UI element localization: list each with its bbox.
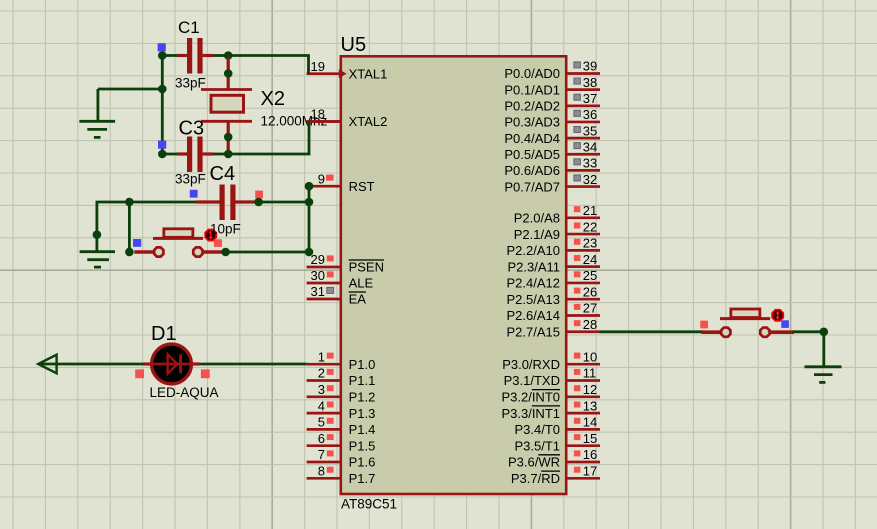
svg-text:P0.2/AD2: P0.2/AD2	[504, 99, 560, 114]
svg-text:10: 10	[583, 349, 597, 364]
wire LED to P1.0	[200, 363, 307, 366]
svg-text:P1.6: P1.6	[349, 455, 376, 470]
node button1 left junction	[125, 248, 134, 257]
svg-text:38: 38	[583, 75, 597, 90]
svg-text:C4: C4	[210, 163, 236, 185]
svg-text:P1.7: P1.7	[349, 471, 376, 486]
svg-text:17: 17	[583, 464, 597, 479]
svg-text:8: 8	[318, 464, 325, 479]
wire left rail	[161, 56, 164, 155]
svg-text:29: 29	[311, 252, 325, 267]
svg-text:3: 3	[318, 382, 325, 397]
svg-text:P1.1: P1.1	[349, 373, 376, 388]
svg-text:26: 26	[583, 284, 597, 299]
pin 18 XTAL2	[307, 120, 340, 123]
transistor Q1 button reset	[134, 250, 153, 254]
node crystal bottom pin dot	[224, 133, 233, 142]
node C4 red marker	[255, 191, 263, 199]
svg-text:21: 21	[583, 203, 597, 218]
svg-text:9: 9	[318, 171, 325, 186]
node button2 red marker	[700, 321, 708, 329]
pin 14 P3.4/T0	[566, 428, 600, 431]
pin 3 P1.2	[307, 395, 340, 398]
node button2 ground junction	[820, 328, 829, 337]
pin 39 P0.0/AD0	[566, 72, 600, 75]
pin 23 P2.2/A10	[566, 249, 600, 252]
svg-text:P0.6/AD6: P0.6/AD6	[504, 163, 560, 178]
pin 36 P0.3/AD3	[566, 121, 600, 124]
svg-text:P0.5/AD5: P0.5/AD5	[504, 147, 560, 162]
svg-text:EA: EA	[349, 292, 367, 307]
node C3 left junction	[158, 150, 167, 159]
svg-text:C3: C3	[179, 118, 205, 140]
capacitor C3	[177, 152, 187, 155]
wire XTAL2 net	[228, 122, 309, 155]
node button1 red marker	[214, 239, 222, 247]
pin 11 P3.1/TXD	[566, 379, 600, 382]
svg-text:U5: U5	[341, 34, 367, 56]
svg-text:LED-AQUA: LED-AQUA	[150, 385, 219, 400]
pin 31 EA	[307, 298, 340, 301]
node D1 right red marker	[201, 369, 210, 378]
node button2 blue marker	[781, 320, 789, 328]
node C1 left junction	[158, 51, 167, 60]
pin 33 P0.6/AD6	[566, 169, 600, 172]
svg-text:7: 7	[318, 447, 325, 462]
wire C3 left	[162, 153, 177, 156]
wire C4 to RST	[254, 201, 309, 204]
svg-text:P2.3/A11: P2.3/A11	[507, 259, 560, 274]
node ground1 junction	[158, 85, 167, 94]
svg-text:PSEN: PSEN	[349, 260, 384, 275]
svg-text:1: 1	[318, 349, 325, 364]
pin 38 P0.1/AD1	[566, 88, 600, 91]
pin 9 RST	[307, 185, 340, 188]
svg-text:AT89C51: AT89C51	[341, 497, 397, 512]
pin 34 P0.5/AD5	[566, 153, 600, 156]
crystal X2	[227, 57, 230, 90]
svg-text:14: 14	[583, 415, 597, 430]
svg-text:33: 33	[583, 156, 597, 171]
ground 2	[80, 250, 115, 253]
pin 21 P2.0/A8	[566, 216, 600, 219]
pin 10 P3.0/RXD	[566, 363, 600, 366]
svg-text:19: 19	[311, 59, 325, 74]
wire button2 to ground	[793, 330, 824, 333]
svg-text:30: 30	[311, 268, 325, 283]
svg-text:31: 31	[311, 284, 325, 299]
svg-text:35: 35	[583, 123, 597, 138]
pin 24 P2.3/A11	[566, 265, 600, 268]
wire C3 right	[214, 153, 229, 156]
pin 8 P1.7	[307, 477, 340, 480]
pin 18 wire overdraw	[307, 120, 340, 123]
pin 27 P2.6/A14	[566, 314, 600, 317]
pin 19 XTAL1	[307, 72, 340, 75]
svg-text:22: 22	[583, 219, 597, 234]
svg-text:37: 37	[583, 91, 597, 106]
node RST junction bottom	[305, 248, 314, 257]
node button1 right junction	[221, 248, 230, 257]
pin 29 PSEN	[307, 266, 340, 269]
svg-text:2: 2	[318, 366, 325, 381]
pin 1 P1.0	[307, 363, 340, 366]
op-amp U1 chip body AT89C51	[341, 56, 566, 494]
svg-text:33pF: 33pF	[175, 172, 206, 187]
pin 12 P3.2/INT0	[566, 395, 600, 398]
wire RST rail	[97, 202, 196, 251]
pin 32 P0.7/AD7	[566, 185, 600, 188]
wire C1 right	[214, 54, 229, 57]
svg-text:34: 34	[583, 139, 597, 154]
wire C1 left	[162, 54, 177, 57]
svg-text:P3.3/INT1: P3.3/INT1	[501, 406, 560, 421]
pin 2 P1.1	[307, 379, 340, 382]
pin 5 P1.4	[307, 428, 340, 431]
svg-text:11: 11	[583, 366, 597, 381]
svg-text:P2.5/A13: P2.5/A13	[507, 292, 561, 307]
svg-text:6: 6	[318, 431, 325, 446]
pin 26 P2.5/A13	[566, 298, 600, 301]
node D1 left red marker	[135, 369, 144, 378]
pin 37 P0.2/AD2	[566, 104, 600, 107]
svg-text:36: 36	[583, 107, 597, 122]
svg-text:P1.4: P1.4	[349, 422, 376, 437]
pin 28 P2.7/A15	[566, 330, 600, 333]
node C3 blue marker	[158, 141, 166, 149]
svg-text:P0.0/AD0: P0.0/AD0	[504, 66, 560, 81]
pin 22 P2.1/A9	[566, 233, 600, 236]
svg-text:P2.2/A10: P2.2/A10	[507, 243, 561, 258]
wire LED left	[38, 363, 143, 366]
ground 1	[79, 120, 115, 123]
pin 17 P3.7/RD	[566, 477, 600, 480]
wire XTAL1 net	[228, 56, 308, 74]
svg-text:P1.2: P1.2	[349, 390, 376, 405]
svg-text:P1.3: P1.3	[349, 406, 376, 421]
transistor Q2 button P2.7	[701, 330, 720, 334]
svg-text:P3.1/TXD: P3.1/TXD	[504, 373, 560, 388]
svg-text:13: 13	[583, 398, 597, 413]
wire button1 vertical	[128, 202, 131, 252]
svg-text:5: 5	[318, 415, 325, 430]
node crystal top junction	[224, 51, 233, 60]
svg-text:C1: C1	[178, 18, 200, 37]
node ground2 pin dot	[93, 230, 102, 239]
svg-text:P3.4/T0: P3.4/T0	[514, 422, 560, 437]
pin 7 P1.6	[307, 461, 340, 464]
pin 30 ALE	[307, 282, 340, 285]
svg-text:25: 25	[583, 268, 597, 283]
pin 15 P3.5/T1	[566, 444, 600, 447]
svg-text:39: 39	[583, 59, 597, 74]
node C4 blue marker	[190, 190, 198, 198]
node crystal top pin dot	[224, 69, 233, 78]
ground 3	[805, 365, 842, 368]
node RST junction top	[305, 182, 314, 191]
node RST label 9 marker	[326, 175, 333, 181]
svg-text:15: 15	[583, 431, 597, 446]
wire ground1 branch	[98, 88, 162, 91]
svg-text:P2.1/A9: P2.1/A9	[514, 227, 560, 242]
pin 25 P2.4/A12	[566, 282, 600, 285]
svg-text:P0.3/AD3: P0.3/AD3	[504, 115, 560, 130]
svg-text:D1: D1	[151, 323, 177, 345]
svg-text:10pF: 10pF	[210, 222, 241, 237]
node crystal bottom junction	[224, 150, 233, 159]
svg-text:32: 32	[583, 172, 597, 187]
pin 35 P0.4/AD4	[566, 137, 600, 140]
svg-text:XTAL1: XTAL1	[349, 66, 388, 81]
node button1 left junction top	[125, 198, 134, 207]
svg-text:16: 16	[583, 447, 597, 462]
svg-text:P2.4/A12: P2.4/A12	[507, 276, 561, 291]
node RST junction mid	[305, 198, 314, 207]
svg-text:X2: X2	[261, 88, 285, 110]
svg-text:23: 23	[583, 236, 597, 251]
wire button1 to RST	[221, 251, 309, 254]
svg-text:P2.0/A8: P2.0/A8	[514, 211, 560, 226]
svg-text:RST: RST	[349, 179, 375, 194]
wire P2.7 net	[600, 330, 704, 333]
pin 6 P1.5	[307, 444, 340, 447]
svg-text:P2.6/A14: P2.6/A14	[507, 308, 561, 323]
capacitor C1	[177, 54, 187, 57]
svg-text:4: 4	[318, 398, 325, 413]
svg-text:28: 28	[583, 317, 597, 332]
svg-text:P0.7/AD7: P0.7/AD7	[504, 179, 560, 194]
svg-text:P3.5/T1: P3.5/T1	[514, 438, 560, 453]
svg-text:12: 12	[583, 382, 597, 397]
svg-text:P3.2/INT0: P3.2/INT0	[501, 390, 560, 405]
pin 19 clock arrow	[339, 69, 347, 78]
svg-text:P1.0: P1.0	[349, 357, 376, 372]
svg-text:P3.7/RD: P3.7/RD	[511, 471, 560, 486]
node C4 right dot	[254, 198, 263, 207]
svg-text:24: 24	[583, 252, 597, 267]
pin 16 P3.6/WR	[566, 461, 600, 464]
node button1 blue marker	[133, 239, 141, 247]
wire RST vertical	[308, 186, 311, 252]
svg-text:ALE: ALE	[349, 276, 374, 291]
pin 4 P1.3	[307, 412, 340, 415]
svg-text:P3.6/WR: P3.6/WR	[508, 455, 560, 470]
svg-text:P2.7/A15: P2.7/A15	[507, 324, 561, 339]
svg-text:P3.0/RXD: P3.0/RXD	[502, 357, 560, 372]
led D1	[144, 362, 152, 365]
svg-text:P0.4/AD4: P0.4/AD4	[504, 131, 560, 146]
svg-text:XTAL2: XTAL2	[349, 114, 388, 129]
pin 13 P3.3/INT1	[566, 412, 600, 415]
svg-text:P0.1/AD1: P0.1/AD1	[504, 82, 560, 97]
svg-text:P1.5: P1.5	[349, 438, 376, 453]
capacitor C4	[196, 200, 220, 203]
svg-text:27: 27	[583, 301, 597, 316]
node terminal arrow	[38, 355, 56, 374]
node C1 blue marker	[158, 43, 166, 51]
